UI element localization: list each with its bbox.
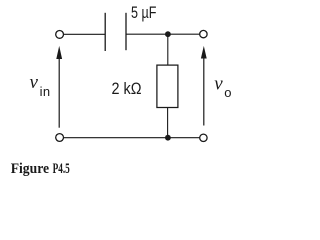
label: v_in: [30, 72, 51, 99]
svg-text:2 kΩ: 2 kΩ: [112, 79, 142, 98]
svg-text:o: o: [224, 85, 231, 100]
node: top-left input terminal: [56, 31, 64, 39]
svg-text:Figure: Figure: [11, 160, 50, 177]
arrow: v_in polarity arrow: [56, 46, 62, 128]
svg-text:P4.5: P4.5: [53, 160, 70, 177]
wire: capacitor right plate to top-right terminal: [127, 33, 200, 35]
node: top-right output terminal: [200, 30, 207, 37]
capacitor C1 right plate: [125, 13, 127, 50]
resistor R1 body: [157, 65, 178, 107]
node: bottom-right output terminal: [200, 134, 207, 141]
label: v_o: [214, 74, 231, 100]
wire: bottom rail: [64, 137, 200, 139]
svg-text:5 µF: 5 µF: [131, 3, 156, 22]
junction dot: top node: [165, 31, 171, 37]
node: bottom-left input terminal: [56, 134, 64, 142]
capacitor C1 left plate: [104, 13, 106, 51]
arrow: v_o polarity arrow: [201, 46, 207, 126]
wire: resistor bottom to bottom junction: [167, 108, 169, 138]
svg-text:v: v: [214, 74, 223, 95]
svg-text:v: v: [30, 72, 39, 93]
wire: top junction down to resistor: [167, 34, 169, 65]
svg-text:in: in: [40, 84, 51, 99]
junction dot: bottom node: [165, 135, 171, 141]
wire: top-left terminal to capacitor left plate: [64, 33, 105, 35]
